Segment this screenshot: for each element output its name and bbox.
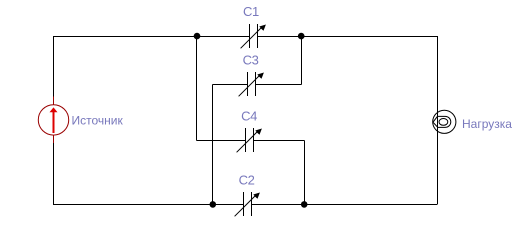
node D junction dot — [301, 201, 308, 208]
wire: C3 left terminal down to node C — [212, 85, 214, 205]
node A junction dot — [194, 33, 201, 40]
wire: C1 right plate to node B — [258, 36, 302, 38]
capacitor C1 (variable) — [241, 24, 266, 48]
load symbol (Нагрузка) — [433, 110, 456, 133]
wire: C4 row horizontal right — [254, 140, 305, 142]
svg-text:C4: C4 — [241, 108, 257, 123]
wire: node A down to C4 row — [196, 37, 198, 141]
current source symbol (Источник) — [38, 97, 68, 144]
svg-text:Источник: Источник — [72, 114, 124, 128]
wire: node C to C2 left plate — [213, 204, 244, 206]
wire bottom-left: corner to node C — [54, 143, 214, 205]
svg-text:C1: C1 — [243, 4, 259, 19]
svg-text:C3: C3 — [243, 52, 259, 67]
node C junction dot — [210, 201, 217, 208]
wire top-left: corner to node A — [54, 37, 198, 97]
wire: node A to C1 left plate — [197, 36, 250, 38]
capacitor C2 (variable) — [235, 192, 260, 216]
wire bottom-right: node D to right corner — [304, 204, 438, 206]
wire top-right: node B to corner — [301, 37, 438, 205]
svg-text:Нагрузка: Нагрузка — [462, 117, 512, 131]
node B junction dot — [298, 33, 305, 40]
wire: C3 row horizontal right — [256, 84, 302, 86]
svg-text:C2: C2 — [239, 173, 255, 188]
capacitor C4 (variable) — [237, 128, 262, 152]
wire: C4 right terminal down to node D — [304, 141, 306, 205]
wire: node B down to C3 right terminal — [301, 37, 303, 85]
wire: C4 row horizontal left — [197, 140, 246, 142]
wire: C3 row horizontal left — [213, 84, 248, 86]
capacitor C3 (variable) — [239, 72, 264, 96]
wire: C2 right plate to node D — [252, 204, 305, 206]
